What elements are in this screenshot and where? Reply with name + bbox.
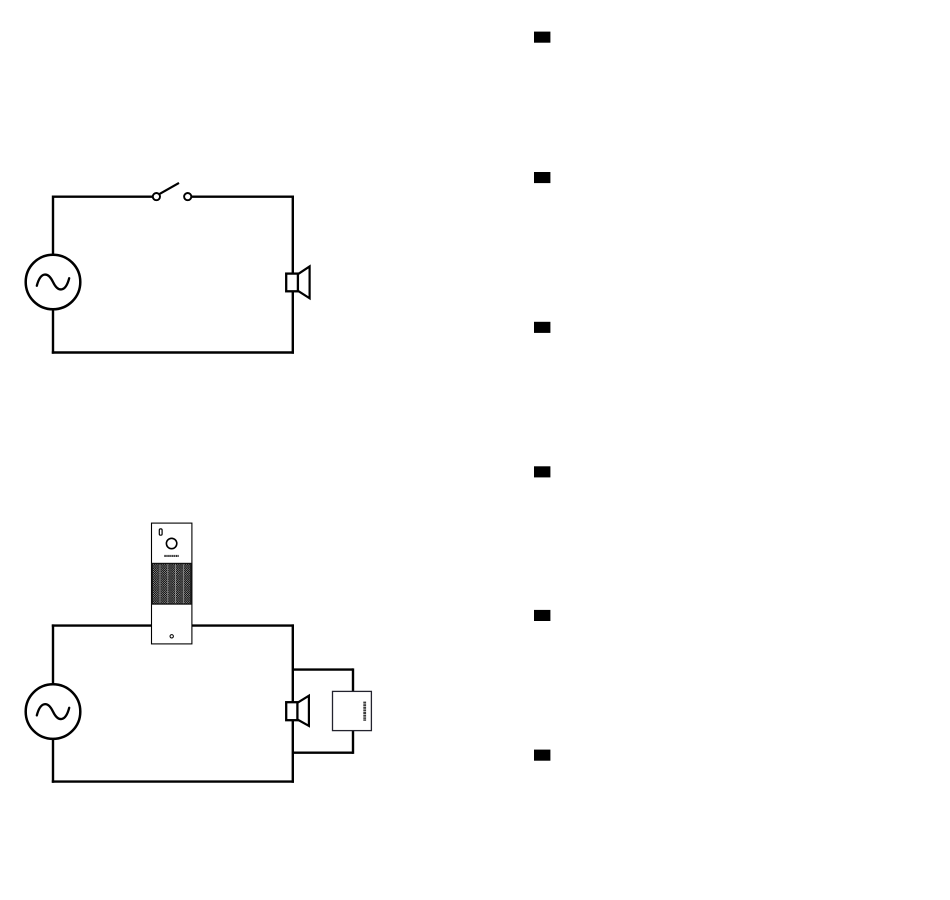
wire right vertical upper	[292, 196, 294, 275]
wire left vertical lower	[52, 739, 54, 783]
microphone MIC1 body	[152, 523, 192, 644]
AC source G2	[26, 684, 81, 739]
wire bottom	[52, 351, 294, 353]
wire earpiece branch vertical	[352, 668, 354, 754]
wire top-left segment	[53, 195, 153, 197]
bullet 5	[534, 610, 550, 621]
bullet 6	[534, 750, 550, 761]
microphone knob	[166, 538, 176, 548]
microphone label	[164, 555, 178, 557]
wire right vertical lower	[292, 720, 294, 783]
bullet 4	[534, 466, 550, 477]
wire bottom	[52, 780, 294, 782]
bullet 1	[534, 32, 550, 43]
wire right vertical lower	[292, 291, 294, 353]
earphone box	[333, 691, 372, 730]
AC source G1	[26, 255, 81, 310]
bullet 3	[534, 322, 550, 333]
speaker SP1	[286, 266, 309, 298]
wire left vertical upper	[52, 624, 54, 683]
speaker SP2	[286, 696, 309, 726]
wire stub to earpiece bottom	[293, 752, 353, 754]
microphone switch mark	[159, 529, 162, 535]
switch S1	[153, 183, 192, 200]
wire top-right segment	[191, 195, 294, 197]
wire right vertical upper	[292, 624, 294, 702]
bullet 2	[534, 172, 550, 183]
wire stub to earpiece top	[293, 668, 353, 670]
microphone bottom mark	[170, 635, 173, 638]
wire top	[52, 624, 294, 626]
wire left vertical lower	[52, 310, 54, 354]
microphone grille	[152, 564, 191, 605]
wire left vertical upper	[52, 196, 54, 255]
